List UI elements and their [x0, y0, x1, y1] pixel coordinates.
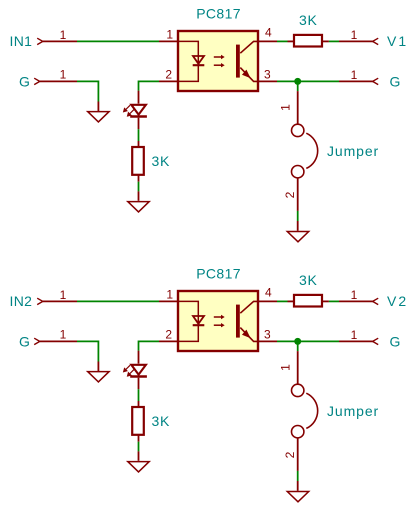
resistor R3 [294, 295, 322, 307]
svg-text:1: 1 [279, 364, 293, 371]
R3 right pin [322, 300, 329, 302]
connector G-left pin wire [40, 340, 77, 342]
ground symbol (middle) [128, 202, 149, 212]
svg-text:3: 3 [264, 68, 271, 82]
wire LED to R4 [138, 389, 140, 401]
U2 phototransistor [236, 301, 258, 341]
optocoupler U1 PC817 body [178, 31, 258, 91]
wire U1 pin 2 to LED [139, 81, 160, 90]
optocoupler U2 PC817 body [178, 291, 258, 351]
circuit 1 (top) [10, 6, 409, 242]
connector V2 pin wire [339, 300, 373, 302]
circuit 2 (bottom) [10, 266, 409, 502]
R3 left pin [288, 300, 295, 302]
wire U1 pin 3 to G [277, 80, 339, 82]
wire U1 pin 4 to R1 [277, 40, 288, 42]
connector V1 chevron [373, 38, 379, 44]
U1 internal LED [193, 56, 205, 65]
ground symbol (jumper) pin [297, 221, 299, 231]
R4 top pin [138, 401, 140, 407]
resistor R2 [132, 147, 144, 175]
ground symbol (left) pin [97, 362, 99, 372]
ground symbol (middle) pin [138, 191, 140, 200]
connector IN2 pin wire [43, 300, 77, 302]
R2 top pin [138, 141, 140, 147]
svg-text:V1: V1 [387, 33, 408, 49]
svg-text:G: G [19, 334, 30, 350]
svg-text:2: 2 [283, 191, 297, 198]
U1 pin 1 [159, 40, 178, 42]
connector G-right pin wire [339, 340, 373, 342]
wire R3 to V2 [329, 300, 339, 302]
JP2 pad 1 [292, 384, 304, 396]
svg-text:1: 1 [351, 68, 358, 82]
ground symbol (jumper) [287, 232, 308, 242]
svg-text:1: 1 [60, 288, 67, 302]
svg-text:G: G [390, 334, 401, 350]
svg-text:3: 3 [264, 328, 271, 342]
wire junction to jumper JP1 [297, 81, 299, 91]
svg-text:1: 1 [351, 28, 358, 42]
ground symbol (jumper) [287, 492, 308, 502]
R4 bottom pin [138, 435, 140, 442]
U1 pin 4 [258, 40, 277, 42]
connector G-right chevron [373, 78, 379, 84]
LED D2 [123, 365, 146, 377]
ground symbol (left) pin [97, 102, 99, 112]
ground symbol (middle) pin [138, 451, 140, 460]
svg-text:Jumper: Jumper [327, 143, 379, 159]
wire LED to R2 [138, 129, 140, 141]
LED D2 cathode pin [138, 378, 140, 390]
connector V1 pin wire [339, 40, 373, 42]
connector IN1 chevron [37, 38, 43, 44]
svg-text:1: 1 [351, 288, 358, 302]
connector V2 chevron [373, 298, 379, 304]
ground symbol (jumper) pin [297, 481, 299, 491]
connector G-right chevron [373, 338, 379, 344]
U2 pin 4 [258, 300, 277, 302]
ground symbol (left) [88, 112, 109, 122]
svg-text:1: 1 [60, 28, 67, 42]
svg-text:1: 1 [60, 328, 67, 342]
resistor R4 [132, 407, 144, 435]
svg-text:IN2: IN2 [10, 293, 33, 309]
wire R2 to ground [138, 182, 140, 192]
svg-text:4: 4 [265, 285, 272, 299]
JP1 pad 2 [292, 166, 304, 178]
LED D1 cathode pin [138, 118, 140, 130]
svg-text:3K: 3K [152, 153, 171, 169]
svg-text:4: 4 [265, 25, 272, 39]
svg-text:2: 2 [165, 68, 172, 82]
wire U2 pin 2 to LED [139, 341, 160, 350]
U2 coupling arrows [214, 315, 225, 328]
R1 right pin [322, 40, 329, 42]
ground symbol (left) [88, 372, 109, 382]
svg-text:3K: 3K [152, 413, 171, 429]
LED D1 anode pin [138, 91, 140, 104]
svg-text:PC817: PC817 [196, 6, 241, 22]
U1 pin 3 [258, 80, 277, 82]
svg-text:1: 1 [166, 288, 173, 302]
wire G net to ground [77, 341, 98, 361]
wire net IN1 to U1 pin 1 [77, 40, 159, 42]
wire R1 to V1 [329, 40, 339, 42]
svg-text:IN1: IN1 [10, 33, 33, 49]
connector G-left chevron [34, 338, 40, 344]
JP1 pin 2 [297, 178, 299, 211]
connector G-left pin wire [40, 80, 77, 82]
svg-text:V2: V2 [387, 293, 408, 309]
JP1 pad 1 [292, 124, 304, 136]
junction node [294, 338, 301, 345]
U2 pin 1 [159, 300, 178, 302]
svg-text:G: G [19, 74, 30, 90]
ground symbol (middle) [128, 462, 149, 472]
connector IN1 pin wire [43, 40, 77, 42]
wire U2 pin 4 to R3 [277, 300, 288, 302]
wire net IN2 to U2 pin 1 [77, 300, 159, 302]
U1 coupling arrows [214, 55, 225, 68]
JP1 arc [306, 133, 317, 168]
LED D1 [123, 105, 146, 117]
JP2 pin 2 [297, 438, 299, 471]
U2 pin 3 [258, 340, 277, 342]
svg-text:PC817: PC817 [196, 266, 241, 282]
connector G-right pin wire [339, 80, 373, 82]
U2 internal LED [193, 316, 205, 325]
U1 phototransistor [236, 41, 258, 81]
svg-text:2: 2 [165, 328, 172, 342]
U1 internal LED wiring [179, 41, 198, 81]
svg-text:G: G [390, 74, 401, 90]
svg-text:3K: 3K [299, 12, 318, 28]
R2 bottom pin [138, 175, 140, 182]
JP2 pad 2 [292, 426, 304, 438]
wire JP1 to ground [297, 211, 299, 221]
svg-text:1: 1 [166, 28, 173, 42]
svg-text:1: 1 [279, 104, 293, 111]
wire G net to ground [77, 81, 98, 101]
U1 pin 2 [159, 80, 178, 82]
connector G-left chevron [34, 78, 40, 84]
junction node [294, 78, 301, 85]
LED D2 anode pin [138, 351, 140, 364]
svg-text:2: 2 [283, 451, 297, 458]
svg-text:3K: 3K [299, 272, 318, 288]
wire JP2 to ground [297, 471, 299, 481]
U2 internal LED wiring [179, 301, 198, 341]
svg-text:Jumper: Jumper [327, 403, 379, 419]
U2 pin 2 [159, 340, 178, 342]
JP2 pin 1 [297, 351, 299, 384]
connector IN2 chevron [37, 298, 43, 304]
svg-text:1: 1 [351, 328, 358, 342]
resistor R1 [294, 35, 322, 47]
JP1 pin 1 [297, 91, 299, 124]
wire junction to jumper JP2 [297, 341, 299, 351]
svg-text:1: 1 [60, 68, 67, 82]
JP2 arc [306, 393, 317, 428]
wire R4 to ground [138, 442, 140, 452]
R1 left pin [288, 40, 295, 42]
wire U2 pin 3 to G [277, 340, 339, 342]
